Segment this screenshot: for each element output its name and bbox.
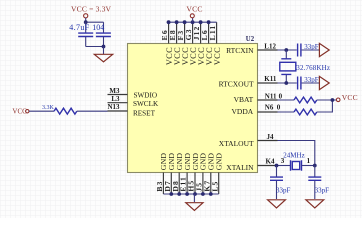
svg-text:33pF: 33pF — [315, 186, 330, 194]
svg-text:SWCLK: SWCLK — [133, 100, 159, 108]
svg-text:K11: K11 — [264, 75, 277, 83]
svg-text:RTCXIN: RTCXIN — [226, 46, 254, 55]
svg-text:GND: GND — [215, 153, 224, 171]
svg-text:K4: K4 — [266, 158, 275, 166]
svg-text:J4: J4 — [267, 133, 275, 141]
svg-text:M3: M3 — [109, 87, 120, 95]
svg-text:RTCXOUT: RTCXOUT — [219, 80, 254, 89]
svg-text:33pF: 33pF — [304, 76, 319, 84]
svg-text:U2: U2 — [246, 36, 255, 43]
svg-text:XTALOUT: XTALOUT — [219, 139, 254, 148]
svg-text:SWDIO: SWDIO — [134, 91, 158, 99]
svg-text:VDDA: VDDA — [232, 107, 254, 116]
svg-text:VCC: VCC — [213, 47, 222, 65]
svg-text:VCC: VCC — [12, 108, 27, 116]
svg-text:0: 0 — [277, 104, 281, 112]
svg-text:L12: L12 — [264, 42, 276, 50]
svg-text:VBAT: VBAT — [234, 95, 254, 104]
svg-text:0: 0 — [279, 92, 283, 100]
svg-text:L3: L3 — [111, 95, 120, 103]
svg-text:32.768KHz: 32.768KHz — [296, 64, 330, 72]
svg-text:N11: N11 — [265, 92, 277, 100]
svg-text:1: 1 — [307, 157, 311, 165]
svg-text:L5: L5 — [210, 181, 219, 192]
svg-text:VCC: VCC — [342, 93, 358, 102]
svg-text:104: 104 — [92, 23, 104, 32]
svg-text:VCC = 3.3V: VCC = 3.3V — [71, 4, 112, 13]
svg-text:L11: L11 — [208, 25, 217, 41]
svg-text:VCC: VCC — [186, 5, 202, 14]
svg-text:XTALIN: XTALIN — [226, 163, 254, 172]
svg-text:N13: N13 — [107, 103, 120, 111]
svg-text:N6: N6 — [265, 104, 274, 112]
svg-text:33pF: 33pF — [276, 186, 291, 194]
svg-text:33pF: 33pF — [304, 43, 319, 51]
svg-text:4.7uF: 4.7uF — [69, 23, 89, 32]
svg-text:3.3K: 3.3K — [42, 105, 55, 111]
svg-text:24MHz: 24MHz — [283, 152, 304, 160]
svg-text:RESET: RESET — [133, 110, 156, 118]
